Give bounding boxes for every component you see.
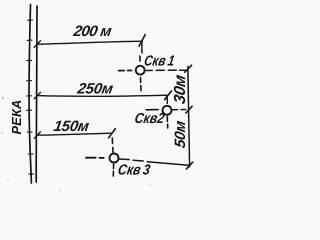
svg-text:200 м: 200 м (71, 23, 112, 40)
Скв1 cross dashes right (to 30м dimension) (146, 69, 152, 71)
Скв3 cross dashes below (113, 164, 115, 168)
extension dashes from 150м arrow down to Скв3 (111, 138, 113, 143)
Скв1 cross dashes left (119, 70, 125, 72)
middle tick (Скв2 level) (186, 106, 192, 113)
right arrow tick of 150м (109, 129, 116, 138)
label Скв2 (133, 110, 166, 126)
dash above borehole Скв1 (139, 56, 141, 61)
borehole Скв3 (110, 154, 119, 163)
Скв2 cross dash left (146, 109, 158, 111)
top tick (Скв1 level) (185, 65, 192, 72)
label РЕКА (rotated) (9, 100, 24, 135)
svg-text:Скв 3: Скв 3 (117, 162, 152, 178)
svg-text:250м: 250м (75, 81, 114, 98)
label 50м (rotated) (172, 120, 189, 149)
river left bank line (29, 5, 31, 184)
Скв2 cross dashes below (166, 117, 168, 122)
vertical dimension line 30м/50м (188, 66, 190, 166)
dimension line 150м (37, 133, 112, 135)
svg-text:Скв2: Скв2 (133, 110, 166, 126)
paper background (0, 0, 212, 194)
right arrow tick of 200 м (139, 35, 145, 47)
svg-text:РЕКА: РЕКА (9, 100, 24, 135)
Скв2 cross dashes right (to 30м/50м dimension) (172, 109, 177, 111)
left tick of 250м (34, 92, 40, 98)
extension line from 250м arrow to Скв2 (166, 97, 168, 104)
svg-text:Скв 1: Скв 1 (143, 52, 176, 68)
left tick of 200 м (34, 41, 40, 48)
label 250м (75, 81, 114, 98)
right arrow tick of 250м (165, 91, 172, 100)
label 200 м (71, 23, 112, 40)
left tick of 150м (34, 132, 40, 138)
borehole Скв1 (136, 66, 145, 75)
Скв3 cross dashes right (to 50м dimension) (119, 158, 129, 161)
dimension line 200 м (37, 41, 143, 44)
extension line below 200 м arrow (141, 41, 143, 53)
paper speckles (1, 97, 206, 191)
bottom tick (Скв3 level) (186, 162, 192, 169)
river bank hatch ticks (27, 20, 34, 174)
Скв3 cross dashes left (86, 157, 96, 159)
label Скв1 (143, 52, 176, 68)
survey baseline (river right bank) (35, 6, 38, 182)
Скв1 cross dashes below (140, 78, 142, 83)
label Скв 3 (117, 162, 152, 178)
borehole Скв2 (163, 106, 172, 115)
svg-text:50м: 50м (172, 120, 189, 149)
svg-text:150м: 150м (52, 118, 90, 135)
svg-text:30м: 30м (171, 73, 189, 105)
label 150м (52, 118, 90, 135)
dimension line 250м (37, 95, 168, 96)
label 30м (rotated) (171, 73, 189, 105)
